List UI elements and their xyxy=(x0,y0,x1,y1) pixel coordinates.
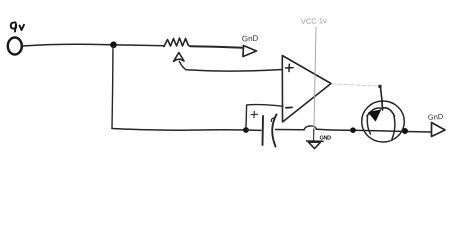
wire wiper to op-amp + input xyxy=(180,62,283,72)
transistor Q1 left leg xyxy=(367,117,370,135)
svg-text:GnD: GnD xyxy=(242,34,259,44)
VCC line xyxy=(314,27,316,127)
port triangle (far right) xyxy=(432,123,446,137)
wire node B to capacitor xyxy=(246,129,261,131)
transistor Q1 base entry xyxy=(381,101,384,110)
svg-text:VCC 1v: VCC 1v xyxy=(301,16,327,26)
junction dot B xyxy=(243,127,249,133)
wire corner down to transistor base xyxy=(381,87,383,101)
junction dot A xyxy=(110,42,117,49)
input terminal J1 xyxy=(8,38,22,55)
op-amp output wire (faint) xyxy=(332,84,379,86)
wire hop over VCC line xyxy=(304,126,317,130)
transistor Q1 inner arch xyxy=(367,108,395,116)
port triangle (top right of R1) xyxy=(243,46,257,57)
transistor Q1 emitter arrow (filled) xyxy=(369,110,381,121)
bottom wire right xyxy=(317,129,431,132)
wire R1 to port xyxy=(191,46,244,48)
svg-text:GnD: GnD xyxy=(428,112,445,122)
capacitor C1 plus sign xyxy=(251,112,258,118)
wire input to resistor xyxy=(23,44,165,46)
resistor R1 xyxy=(164,38,191,47)
junction dot C xyxy=(350,127,356,133)
wire junction A down xyxy=(112,46,113,129)
op-amp + input mark xyxy=(286,64,294,71)
wire VCC line below hop to ground xyxy=(313,129,315,141)
corner dot xyxy=(378,85,381,88)
op-amp - input mark xyxy=(286,106,292,108)
op-amp U1 triangle xyxy=(282,56,331,123)
capacitor C1 xyxy=(262,116,265,145)
ground symbol xyxy=(307,141,324,149)
bottom wire left xyxy=(112,129,245,131)
wire capacitor to hop xyxy=(276,129,305,131)
label 9v xyxy=(11,22,24,31)
transistor Q1 circle xyxy=(362,101,405,142)
svg-text:GND: GND xyxy=(320,136,332,142)
wiper arrow of R1 xyxy=(174,53,185,62)
junction dot D xyxy=(402,128,408,134)
wire node B up to minus input xyxy=(246,105,283,128)
transistor Q1 right leg xyxy=(392,116,395,139)
